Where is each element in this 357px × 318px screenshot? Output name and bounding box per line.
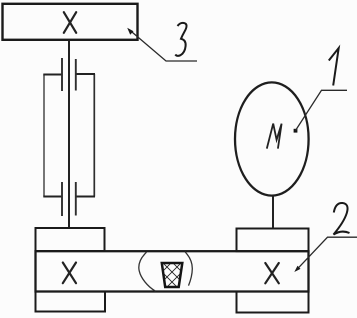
label 1 leader line <box>296 90 348 130</box>
left bottom support <box>36 292 106 312</box>
label 3 digit <box>175 23 186 56</box>
left bearing pedestal <box>36 228 105 251</box>
X mark left in trough <box>63 263 76 284</box>
motor M1 (circle) <box>235 82 309 195</box>
right bottom support <box>237 292 309 313</box>
belt drive: belt top-right segment <box>76 73 95 75</box>
belt drive: belt top-left segment <box>43 74 62 76</box>
belt drive: belt bottom-left segment <box>43 196 62 198</box>
label 3 leader line <box>129 30 197 62</box>
bottom pulley left tick <box>61 182 63 216</box>
X mark in block 3 <box>64 12 76 33</box>
top pulley left tick <box>61 58 63 91</box>
letter M inside motor <box>267 124 282 149</box>
belt drive: belt bottom-right segment <box>76 196 95 198</box>
machine block 3 (rectangle) <box>3 4 138 40</box>
label 1 digit <box>329 48 339 86</box>
basket screen symbol (crosshatched trapezoid) <box>139 243 205 300</box>
label 1 leader dot <box>294 129 298 133</box>
label 2 digit <box>334 203 350 235</box>
bottom pulley right tick <box>75 182 77 216</box>
top pulley right tick <box>75 59 77 91</box>
freehand mark right of basket <box>185 252 192 286</box>
X mark right in trough <box>265 263 279 283</box>
shaft from block 3 to left bearing pedestal <box>68 40 70 228</box>
motor shaft <box>272 196 274 229</box>
label 2 leader line <box>296 237 357 270</box>
freehand mark left of basket <box>139 252 156 291</box>
trough machine 2 (long rectangle) <box>36 251 309 291</box>
label 3 arrowhead <box>127 28 133 35</box>
label 2 arrowhead <box>294 266 300 272</box>
belt drive: belt right side <box>93 74 95 197</box>
right bearing pedestal <box>237 229 309 252</box>
belt drive: belt left side <box>43 75 45 197</box>
